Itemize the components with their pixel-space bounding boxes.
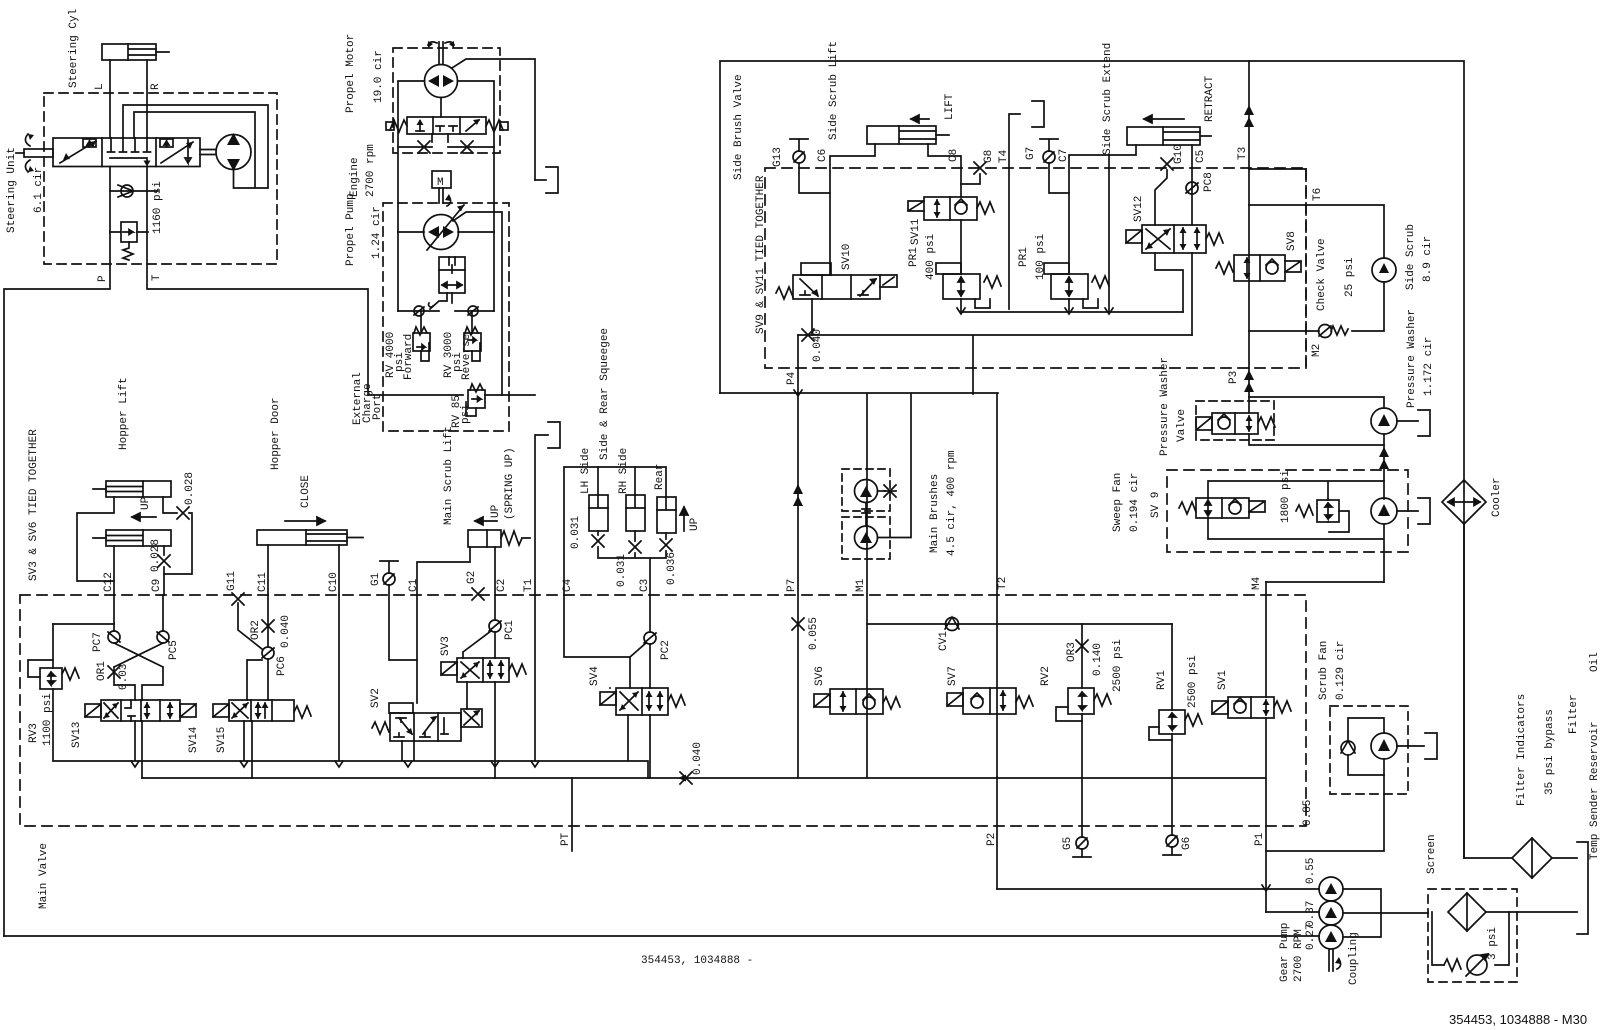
scrub fan loop wires <box>1348 718 1384 775</box>
orifice OR3 <box>1076 624 1088 688</box>
supply wire mid pump <box>1266 911 1319 913</box>
svg-text:PC1: PC1 <box>504 620 516 640</box>
svg-text:1160 psi: 1160 psi <box>152 181 164 234</box>
svg-text:2700 rpm: 2700 rpm <box>365 144 377 197</box>
wire C8 to PR1 <box>960 220 962 274</box>
svg-text:SV4: SV4 <box>589 666 601 686</box>
valve SV10 <box>776 263 897 299</box>
svg-text:Oil: Oil <box>1589 652 1600 672</box>
svg-text:OR2: OR2 <box>250 620 262 640</box>
tank bracket T4 <box>1032 101 1044 127</box>
svg-text:Screen: Screen <box>1426 834 1438 874</box>
svg-text:G11: G11 <box>226 571 238 591</box>
svg-text:Coupling: Coupling <box>1348 932 1360 985</box>
svg-text:C5: C5 <box>1195 150 1207 163</box>
arrow close <box>285 517 325 525</box>
motor sweep fan <box>1371 498 1397 524</box>
motor case drain wire <box>452 59 535 180</box>
engine shaft <box>439 188 443 203</box>
svg-text:SV11: SV11 <box>910 218 922 245</box>
check CV1 <box>945 617 959 631</box>
orifice OR2 <box>262 620 274 632</box>
valve SV9 <box>1179 498 1265 518</box>
check PC7 <box>108 631 120 643</box>
cylinder side scrub lift <box>867 126 949 144</box>
wire screen to reservoir <box>1486 911 1577 913</box>
check valve M2 <box>1249 325 1348 338</box>
svg-text:LIFT: LIFT <box>944 93 956 120</box>
svg-text:G5: G5 <box>1062 837 1074 850</box>
distribution manifold wire <box>720 392 998 394</box>
wire M4 link <box>1266 581 1384 583</box>
wire L <box>109 60 111 138</box>
svg-text:L: L <box>94 83 106 90</box>
check PC8 <box>1186 145 1198 225</box>
gauge port G1 <box>380 561 398 585</box>
svg-text:Filter Indicators: Filter Indicators <box>1516 694 1528 806</box>
svg-text:SV15: SV15 <box>216 727 228 753</box>
wire pw pump out <box>1397 420 1418 422</box>
arrow up hopper <box>132 513 156 521</box>
screen dashed box <box>1428 889 1517 982</box>
tank bus lower <box>142 777 1265 779</box>
wire T6 link <box>1249 168 1306 170</box>
propel pump dashed box <box>383 203 509 431</box>
svg-text:PR1: PR1 <box>908 247 920 267</box>
wire PT <box>571 778 573 851</box>
wire C9 inner <box>162 595 164 631</box>
svg-text:0.055: 0.055 <box>808 617 820 650</box>
propel motor dashed box <box>393 48 500 153</box>
orifice G11 <box>232 593 244 605</box>
wire charge line to drain <box>485 394 535 396</box>
svg-text:(SPRING UP): (SPRING UP) <box>504 447 516 520</box>
wire P4 supply <box>798 335 1192 394</box>
svg-text:19.0 cir: 19.0 cir <box>373 50 385 103</box>
orifice left <box>418 141 430 153</box>
wire pump ports <box>398 231 494 233</box>
wire extend left port <box>1109 145 1136 312</box>
wire C10 <box>338 545 340 595</box>
wire P2 <box>996 777 998 889</box>
relief sweep fan <box>1296 500 1349 532</box>
gauge port G6 <box>1163 835 1181 855</box>
svg-text:CV1: CV1 <box>938 631 950 651</box>
wire G7 branch <box>1049 163 1069 193</box>
svg-text:1.172 cir: 1.172 cir <box>1423 337 1435 396</box>
coupling shaft <box>1329 949 1333 971</box>
check PC1 <box>463 595 501 658</box>
orifice brush drain <box>878 485 897 497</box>
wire P3 <box>1248 368 1250 413</box>
svg-text:SV3: SV3 <box>440 636 452 656</box>
svg-text:SV13: SV13 <box>71 722 83 748</box>
orifice squeegee LH <box>592 535 604 547</box>
svg-text:OR1: OR1 <box>96 661 108 681</box>
svg-text:0.140: 0.140 <box>1092 643 1104 676</box>
reducing valve PR1 400 <box>936 263 1001 308</box>
svg-text:6.1 cir: 6.1 cir <box>33 167 45 213</box>
valve SV13 SV14 <box>85 700 196 721</box>
wire G11 pilot <box>238 603 262 649</box>
svg-text:Side Scrub: Side Scrub <box>1405 224 1417 290</box>
valve SV7 <box>947 688 1033 714</box>
svg-text:C4: C4 <box>562 578 574 592</box>
svg-text:G13: G13 <box>772 147 784 167</box>
wire RV2 to G5 <box>1081 714 1083 837</box>
orifice tank bus <box>680 772 692 784</box>
svg-text:Pressure Washer: Pressure Washer <box>1159 357 1171 456</box>
gauge port G13 <box>790 139 808 163</box>
tank bracket pw <box>1418 410 1430 436</box>
squeegee manifold wire <box>564 467 666 595</box>
valve SV1 <box>1212 697 1291 718</box>
svg-text:1.24 cir: 1.24 cir <box>371 206 383 259</box>
valve pressure washer <box>1196 413 1275 434</box>
svg-text:Propel Pump: Propel Pump <box>345 193 357 266</box>
svg-text:T4: T4 <box>998 149 1010 163</box>
junction PR1 100 <box>1065 308 1073 314</box>
valve SV6 <box>814 689 900 714</box>
arrow up scrub <box>475 517 497 525</box>
valve SV4 <box>600 688 685 715</box>
svg-text:T2: T2 <box>997 577 1009 590</box>
wire T2 <box>996 394 998 777</box>
svg-text:Engine: Engine <box>349 157 361 197</box>
svg-text:0.028: 0.028 <box>150 539 162 572</box>
svg-text:Port: Port <box>372 394 384 420</box>
wire RV1 line <box>1171 624 1173 710</box>
wire C10 inner <box>338 595 340 760</box>
svg-text:0.040: 0.040 <box>692 742 704 775</box>
wire SV2 outs <box>402 595 417 760</box>
bottom boundary wire <box>4 935 1319 937</box>
reservoir bracket <box>1577 842 1588 934</box>
svg-text:RETRACT: RETRACT <box>1204 75 1216 122</box>
check valve charge right <box>455 306 494 316</box>
svg-text:R: R <box>150 83 162 90</box>
wire G10 to SV12 <box>1155 170 1167 225</box>
arrow retract <box>1144 115 1184 123</box>
svg-text:G10: G10 <box>1173 144 1185 164</box>
wire P1 M4 <box>1265 582 1267 912</box>
svg-text:Temp Sender Reservoir: Temp Sender Reservoir <box>1589 721 1600 860</box>
wire SV15 outs <box>244 721 252 778</box>
svg-text:8.9 cir: 8.9 cir <box>1422 236 1434 282</box>
orifice G10 <box>1161 158 1173 170</box>
wire T1 <box>535 435 548 761</box>
svg-text:0.194 cir: 0.194 cir <box>1129 473 1141 532</box>
wire P4 down <box>797 335 799 394</box>
relief RV4000 forward <box>398 232 430 361</box>
svg-text:G8: G8 <box>983 150 995 163</box>
wire SV12 outs <box>1155 253 1192 335</box>
svg-text:SV3 & SV6 TIED TOGETHER: SV3 & SV6 TIED TOGETHER <box>28 429 40 581</box>
wire P7 <box>797 395 799 777</box>
svg-text:M1: M1 <box>855 578 867 592</box>
motor coupling shaft <box>862 503 870 527</box>
shaft rotation arrow <box>445 194 451 206</box>
tank bracket sweep <box>1418 498 1430 524</box>
valve right cell arrows <box>160 139 193 163</box>
svg-text:Main Scrub Lift: Main Scrub Lift <box>443 426 455 525</box>
svg-text:2500 psi: 2500 psi <box>1112 639 1124 692</box>
wire motor to valve <box>440 98 442 118</box>
wire SV3 outs <box>467 632 495 778</box>
svg-text:Propel Motor: Propel Motor <box>345 34 357 113</box>
wire side scrub return <box>1352 282 1384 331</box>
wire scrub fan out <box>1397 745 1424 747</box>
tank bracket propel drain <box>546 167 558 193</box>
orifice 0.028 lower <box>158 555 170 567</box>
svg-text:Sweep Fan: Sweep Fan <box>1112 473 1124 532</box>
cylinder side scrub extend <box>1127 127 1211 145</box>
svg-text:354453, 1034888 - M30: 354453, 1034888 - M30 <box>1449 1012 1587 1027</box>
pump gear bottom <box>1319 925 1343 949</box>
relief RV3000 reverse <box>464 232 494 361</box>
wire hopper right loop <box>163 497 192 574</box>
junction P1 <box>1262 885 1270 891</box>
wire scrub fan to P1 <box>1266 775 1384 851</box>
screen bypass loop <box>1432 912 1509 965</box>
junction extend <box>1105 308 1113 314</box>
svg-text:0.55: 0.55 <box>1305 858 1317 884</box>
svg-text:P: P <box>97 275 109 282</box>
orifice right <box>461 141 473 153</box>
wire RV3 supply <box>53 623 114 625</box>
reducing valve PR1 100 <box>1044 263 1109 308</box>
sweep fan dashed box <box>1167 470 1408 552</box>
svg-text:G7: G7 <box>1025 147 1037 160</box>
valve drain stubs with orifices <box>398 134 494 147</box>
svg-text:PC5: PC5 <box>168 640 180 660</box>
svg-text:C8: C8 <box>948 149 960 162</box>
sweep fan inner wires <box>1208 481 1384 582</box>
wire C9 <box>163 546 165 595</box>
wire SV4 outs <box>610 688 650 778</box>
collector bus side brush <box>961 311 1183 313</box>
gear pump suction loop <box>1343 889 1428 937</box>
bypass valve circle <box>1466 954 1488 976</box>
svg-text:SV9 & SV11 TIED TOGETHER: SV9 & SV11 TIED TOGETHER <box>755 175 767 334</box>
wire SV10 out <box>811 299 813 335</box>
motor M1 circle <box>425 65 458 98</box>
svg-text:35 psi bypass: 35 psi bypass <box>1544 709 1556 795</box>
svg-text:100 psi: 100 psi <box>1035 233 1047 280</box>
svg-text:RV3: RV3 <box>28 723 40 743</box>
svg-text:Side & Rear Squeegee: Side & Rear Squeegee <box>599 328 611 460</box>
svg-text:SV2: SV2 <box>370 688 382 708</box>
svg-text:25 psi: 25 psi <box>1344 257 1356 297</box>
svg-text:psi: psi <box>460 404 472 424</box>
wire PR1 100 out <box>1068 299 1070 312</box>
wire brush lower out <box>878 394 912 538</box>
relief RV1 <box>1149 710 1202 740</box>
svg-text:0.040: 0.040 <box>280 615 292 648</box>
motor main brush upper <box>855 480 878 503</box>
relief RV2 <box>1056 688 1111 721</box>
wire PC6 to valve <box>247 659 268 700</box>
svg-text:P4: P4 <box>786 371 798 385</box>
cylinder steering <box>102 44 169 60</box>
wire CV1 line <box>867 623 1172 625</box>
propel loop right wire <box>458 81 495 232</box>
main brush dashed box upper <box>842 469 890 511</box>
cylinder hopper lift lower <box>93 530 171 546</box>
svg-text:C11: C11 <box>257 572 269 592</box>
wire PR1 out <box>960 299 962 312</box>
spring bypass <box>1444 959 1461 971</box>
wire SV13 outs <box>135 721 142 778</box>
wire C8 <box>928 144 961 197</box>
wire G8 branch <box>961 174 980 184</box>
svg-text:0.028: 0.028 <box>184 472 196 505</box>
gauge port G5 <box>1073 837 1091 857</box>
wire R <box>146 60 148 138</box>
svg-text:C6: C6 <box>817 149 829 162</box>
svg-text:PC2: PC2 <box>660 640 672 660</box>
pump P circle variable <box>424 205 465 250</box>
wire servo feedback <box>451 293 453 303</box>
tank bracket T1 top <box>548 422 560 448</box>
pump gear top <box>1319 877 1343 901</box>
wire C3 inner to PC2 <box>649 595 651 632</box>
junction P4 <box>794 390 802 396</box>
svg-text:4.5 cir, 400 rpm: 4.5 cir, 400 rpm <box>946 450 958 556</box>
svg-text:T1: T1 <box>523 578 535 592</box>
cooler <box>1442 480 1486 524</box>
wire T4 <box>1009 114 1020 309</box>
svg-text:2700 RPM: 2700 RPM <box>1293 929 1305 982</box>
valve SV3 <box>441 658 526 682</box>
wire sweep motor out <box>1397 510 1418 512</box>
scrub fan dashed box <box>1330 706 1408 794</box>
wire drain to bracket <box>535 179 546 181</box>
svg-text:CLOSE: CLOSE <box>300 475 312 508</box>
svg-text:P7: P7 <box>786 579 798 592</box>
cylinder main scrub lift <box>468 530 530 547</box>
svg-text:Side Scrub Lift: Side Scrub Lift <box>828 41 840 140</box>
arrows sweep fan <box>1379 447 1389 469</box>
svg-text:Forward: Forward <box>403 334 415 380</box>
svg-text:Hopper Lift: Hopper Lift <box>118 377 130 450</box>
svg-text:SV1: SV1 <box>1217 670 1229 690</box>
check PC2 <box>630 632 656 657</box>
servo cylinder <box>428 257 465 309</box>
coupling arrow <box>1335 957 1341 969</box>
check PC5 <box>157 631 169 643</box>
svg-text:Side Brush Valve: Side Brush Valve <box>733 74 745 180</box>
filter diamond <box>1512 838 1552 878</box>
cylinder squeegee Rear <box>657 497 676 533</box>
svg-text:G1: G1 <box>370 572 382 586</box>
svg-text:LH Side: LH Side <box>580 448 592 494</box>
tank bracket scrub fan <box>1425 733 1437 759</box>
check valve steering <box>110 185 158 197</box>
svg-text:SV12: SV12 <box>1133 196 1145 222</box>
svg-text:Main Brushes: Main Brushes <box>929 474 941 553</box>
wire C6 <box>830 144 875 275</box>
cylinder squeegee LH <box>589 467 608 531</box>
svg-text:0.040: 0.040 <box>812 329 824 362</box>
motor main brush lower <box>855 526 878 549</box>
wire side scrub supply <box>1249 205 1384 258</box>
valve left cell arrows <box>60 139 96 163</box>
orifice OR1 <box>108 666 120 678</box>
wire hopper loop left <box>77 497 114 581</box>
svg-text:3 psi: 3 psi <box>1487 927 1499 960</box>
steering control valve body <box>53 138 200 167</box>
svg-text:Valve: Valve <box>1176 409 1188 442</box>
tank bus upper <box>53 761 648 778</box>
arrows P7 <box>793 484 803 506</box>
svg-text:Main Valve: Main Valve <box>38 843 50 909</box>
valve SV8 <box>1216 255 1301 281</box>
pw pump loop wires <box>1249 397 1384 445</box>
svg-text:PC8: PC8 <box>1203 172 1215 192</box>
valve SV12 <box>1126 225 1223 253</box>
svg-text:SV8: SV8 <box>1286 231 1298 251</box>
pump gear mid <box>1319 901 1343 925</box>
orifice G8 <box>974 162 986 174</box>
cylinder hopper lift upper <box>93 481 171 497</box>
valve SV11 <box>908 197 994 220</box>
svg-text:1100 psi: 1100 psi <box>42 693 54 746</box>
svg-text:SV10: SV10 <box>841 244 853 270</box>
valve SV15 <box>213 700 311 721</box>
svg-text:C12: C12 <box>103 572 115 592</box>
pump pressure washer <box>1371 408 1397 434</box>
wire sweep fan supply <box>1383 445 1385 499</box>
cylinder squeegee RH <box>626 467 645 531</box>
junction marks bus <box>131 761 539 767</box>
svg-text:0.129 cir: 0.129 cir <box>1335 641 1347 700</box>
svg-text:C3: C3 <box>639 579 651 592</box>
svg-text:RV2: RV2 <box>1040 666 1052 686</box>
charge relief RV85 <box>466 384 485 416</box>
supply wire P2 P1 <box>997 888 1319 890</box>
wire C4 inner <box>564 595 630 688</box>
svg-text:2500 psi: 2500 psi <box>1187 655 1199 708</box>
svg-text:0.37: 0.37 <box>1305 901 1317 927</box>
svg-text:UP: UP <box>689 517 701 531</box>
svg-text:Scrub Fan: Scrub Fan <box>1318 641 1330 700</box>
svg-text:PT: PT <box>560 832 572 846</box>
valve SV2 <box>372 703 482 741</box>
orifice P4 <box>802 329 814 341</box>
svg-text:PC7: PC7 <box>92 632 104 652</box>
valve center cell ports <box>108 138 151 162</box>
orifice squeegee Rear <box>660 539 672 551</box>
orifice G2 <box>472 588 484 600</box>
svg-text:400 psi: 400 psi <box>925 233 937 280</box>
gauge port G7 <box>1040 139 1058 163</box>
arrow up squeegee <box>680 507 688 531</box>
steering unit dashed box <box>44 93 277 264</box>
svg-text:P1: P1 <box>1254 832 1266 846</box>
steering handwheel actuator <box>16 134 53 172</box>
arrow lift <box>911 115 929 123</box>
orifice 0.028 upper <box>177 507 189 519</box>
svg-text:T6: T6 <box>1312 188 1324 201</box>
gerotor pump circle <box>200 133 251 171</box>
svg-text:UP: UP <box>140 496 152 510</box>
motor side scrub <box>1372 258 1396 282</box>
pilot cross wires <box>114 643 163 700</box>
svg-text:OR3: OR3 <box>1066 642 1078 662</box>
svg-text:C10: C10 <box>328 572 340 592</box>
svg-text:Filter: Filter <box>1568 694 1580 734</box>
